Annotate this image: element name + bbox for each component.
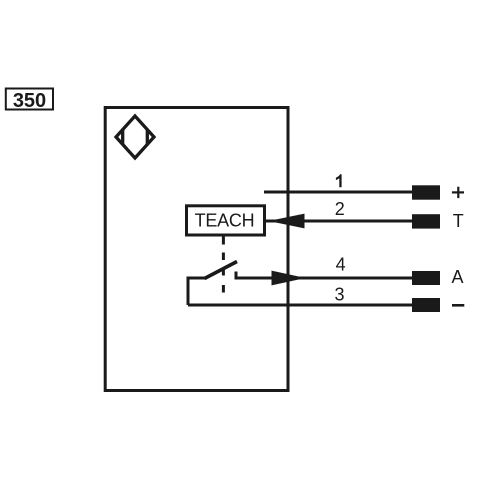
wire 4 (output A) <box>236 277 412 280</box>
terminal 4 <box>412 271 440 285</box>
pin number 1 <box>336 174 342 187</box>
svg-text:350: 350 <box>13 90 46 112</box>
terminal 1 <box>412 185 440 199</box>
switch lever <box>205 262 238 279</box>
output arrow (points right) <box>272 271 306 286</box>
teach input arrow (points left) <box>269 214 305 229</box>
switch right contact <box>236 272 248 279</box>
label + <box>452 187 464 198</box>
terminal 3 <box>412 298 440 312</box>
figure number box 350 <box>6 89 53 112</box>
TEACH block <box>187 206 265 235</box>
svg-text:TEACH: TEACH <box>195 210 255 230</box>
wire 2 (teach input) <box>263 220 412 223</box>
wire 1 (+ supply) <box>264 191 412 194</box>
svg-text:4: 4 <box>336 255 346 275</box>
svg-text:T: T <box>453 211 464 231</box>
sensor body outline <box>105 108 288 391</box>
dashed link from TEACH block to switch <box>222 237 225 293</box>
svg-text:A: A <box>451 267 463 287</box>
switch left contact wire <box>188 278 206 305</box>
sensor diamond symbol <box>116 116 154 158</box>
switch (teach contact) <box>188 262 248 306</box>
wire 3 (- supply) <box>188 304 412 307</box>
label - (minus) <box>452 304 464 307</box>
svg-text:2: 2 <box>335 199 345 219</box>
terminal 2 <box>412 214 440 228</box>
svg-text:3: 3 <box>334 285 344 305</box>
